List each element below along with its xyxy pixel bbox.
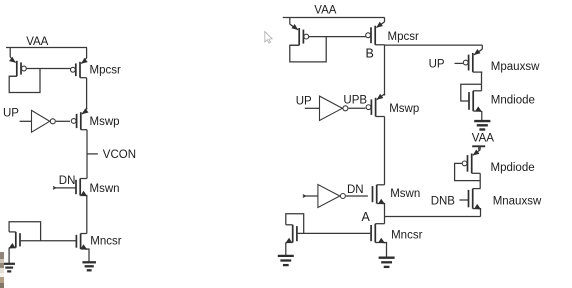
svg-text:Mncsr: Mncsr [391, 230, 422, 242]
node A label [362, 210, 371, 224]
svg-text:VAA: VAA [314, 5, 336, 17]
svg-text:UP: UP [296, 96, 312, 108]
transistor Mpcsr (left) [71, 48, 88, 78]
svg-text:UP: UP [3, 108, 19, 120]
net label VAA (right circuit) [314, 5, 336, 17]
transistor Mswn (right) [373, 185, 386, 224]
inverter U1 (left, UP) [32, 110, 56, 132]
transistor Mpdiode [462, 147, 480, 174]
wire diode loop (left mirror) [9, 69, 40, 93]
inverter U2 (right, UP) [320, 96, 348, 120]
svg-text:UPB: UPB [343, 95, 367, 107]
svg-text:VCON: VCON [103, 149, 136, 161]
label Mpcsr (right) [388, 31, 419, 43]
transistor Mpauxsw [463, 45, 482, 72]
wire Mndiode diode loop [461, 84, 482, 101]
svg-text:Mswp: Mswp [389, 103, 419, 115]
svg-text:Mswn: Mswn [390, 188, 420, 200]
transistor Mswp (right) [366, 94, 384, 117]
label Mswp (left) [90, 116, 120, 128]
pmos mirror diode (left circuit, unlabeled) [9, 48, 26, 77]
net label DN (left) [59, 175, 76, 187]
svg-text:VAA: VAA [26, 36, 48, 48]
transistor Mswp (left) [71, 108, 88, 130]
svg-text:Mpauxsw: Mpauxsw [491, 61, 540, 73]
wire diode loop (right bottom mirror) [286, 214, 304, 234]
wire diode loop (right top mirror) [290, 37, 326, 62]
wire DN to Mswn gate [346, 195, 368, 197]
nmos mirror diode (right circuit bottom, unlabeled) [285, 225, 297, 244]
svg-text:Mndiode: Mndiode [491, 95, 535, 107]
wire inverter out to Mswp gate [56, 120, 70, 122]
net label UP (aux) [429, 59, 445, 71]
wire VAA rail (left circuit) [6, 47, 87, 49]
svg-text:Mncsr: Mncsr [90, 235, 121, 247]
svg-text:Mpcsr: Mpcsr [90, 65, 121, 77]
label Mndiode [491, 95, 535, 107]
svg-text:A: A [362, 210, 371, 224]
net label VAA (left circuit) [26, 36, 48, 48]
svg-text:DN: DN [59, 175, 76, 187]
wire Mpdiode-Mnauxsw [479, 173, 481, 188]
wire node A to Mnauxsw [385, 216, 481, 218]
wire Mncsr src to ground (right) [385, 243, 387, 258]
label Mswn (right) [390, 188, 420, 200]
wire diode loop (bottom mirror) [9, 222, 40, 241]
transistor Mnauxsw [469, 189, 482, 217]
wire UPB to Mswp gate [349, 107, 366, 109]
wire Mpdiode diode loop [455, 163, 481, 180]
net label VAA (aux) [472, 132, 494, 144]
transistor Mpcsr (right) [366, 18, 385, 45]
wire VCON stub [87, 153, 98, 155]
wire DN inverter input [303, 195, 318, 197]
wire VAA rail (right circuit) [283, 17, 385, 19]
svg-text:UP: UP [429, 59, 445, 71]
cursor [265, 32, 272, 44]
svg-text:VAA: VAA [472, 132, 494, 144]
inverter U3 (right, DN) [318, 185, 346, 208]
net label DN (right) [347, 184, 364, 196]
transistor Mncsr (right) [371, 224, 385, 244]
svg-text:B: B [366, 47, 374, 61]
wire Mpauxsw-Mndiode [481, 72, 483, 91]
ground (Mndiode) [474, 121, 490, 129]
label Mswp (right) [389, 103, 419, 115]
wire left diode source to ground [8, 248, 10, 263]
svg-text:Mnauxsw: Mnauxsw [493, 196, 542, 208]
ground (left mirror) [3, 264, 15, 272]
ground (right Mncsr) [379, 258, 395, 267]
wire gate bus right bottom mirror [297, 232, 372, 234]
transistor Mndiode [469, 91, 482, 112]
svg-text:DN: DN [347, 184, 364, 196]
wire gate bus mirror [26, 68, 70, 70]
label Mpdiode [491, 162, 535, 174]
wire node B column [384, 45, 386, 96]
wire gate bus right mirror [309, 36, 366, 38]
label Mpauxsw [491, 61, 540, 73]
net label VCON [103, 149, 136, 161]
wire DN input [54, 187, 77, 189]
svg-text:Mswn: Mswn [90, 183, 120, 195]
svg-text:Mpcsr: Mpcsr [388, 31, 419, 43]
pmos mirror diode (right circuit, unlabeled) [290, 18, 309, 46]
wire UP input (right) [305, 107, 320, 109]
wire Mndiode source to ground [481, 111, 483, 120]
wire node B to Mpauxsw [385, 44, 483, 46]
transistor Mncsr (left) [76, 234, 87, 251]
label Mncsr (right) [391, 230, 422, 242]
ground (right mirror) [278, 256, 294, 265]
svg-text:Mpdiode: Mpdiode [491, 162, 535, 174]
net label UP (left) [3, 108, 19, 120]
net label DNB [431, 196, 456, 208]
ground (left Mncsr) [82, 262, 96, 270]
wire Mncsr source to ground [87, 249, 89, 262]
wire Mswp-Mswn (right) [384, 117, 386, 185]
label Mswn (left) [90, 183, 120, 195]
wire Mpcsr-Mswp [86, 78, 88, 109]
label Mpcsr (left) [90, 65, 121, 77]
node B label [366, 47, 374, 61]
svg-text:DNB: DNB [431, 196, 456, 208]
nmos mirror diode (left circuit bottom, unlabeled) [8, 232, 20, 249]
transistor Mswn (left) [76, 179, 88, 234]
net label UPB [343, 95, 367, 107]
wire gate bus bottom mirror [20, 240, 76, 242]
wire DNB to Mnauxsw gate [459, 199, 468, 201]
label Mnauxsw [493, 196, 542, 208]
pin chevron DN [53, 187, 56, 190]
supply bar VAA [472, 146, 485, 150]
pin chevron DN inverter [303, 195, 306, 198]
wire Mswp-Mswn [86, 130, 88, 179]
wire UP input [20, 120, 32, 122]
label Mncsr (left) [90, 235, 121, 247]
net label UP (right) [296, 96, 312, 108]
svg-text:Mswp: Mswp [90, 116, 120, 128]
wire UP to Mpauxsw gate [455, 62, 463, 64]
wire diode source to ground (right mirror) [285, 243, 287, 256]
